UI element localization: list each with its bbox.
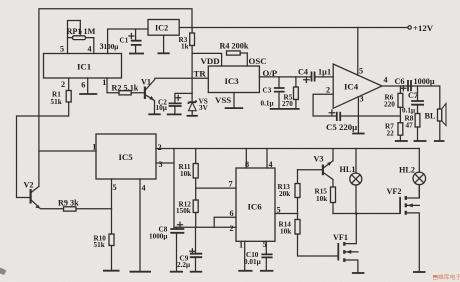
wire IC6 pin 6 jog [214,217,236,227]
timer IC3 [208,66,259,93]
wire IC6 pin 5 to divider [275,213,298,215]
resistor R15 10k [331,187,336,203]
svg-text:2: 2 [158,143,162,152]
wire mid supply rail from IC5 pin 2 [156,148,419,150]
svg-text:3: 3 [360,95,364,104]
node junction at HL1/VF1 drain [355,212,358,215]
ground for IC1 pin 6 [87,78,89,94]
wire junction to IC6 pin 7 [196,187,236,189]
timer IC6 [236,168,275,241]
svg-text:51k: 51k [94,241,105,249]
resistor R4 200k [240,53,247,66]
pin 5 of IC1 [68,21,81,54]
svg-text:C3: C3 [263,87,272,95]
svg-text:V1: V1 [141,78,151,87]
resistor R3 1k [191,28,193,103]
resistor R13 20k [297,170,299,214]
svg-text:10k: 10k [280,228,291,236]
svg-text:C5 220μ: C5 220μ [326,122,357,132]
svg-text:2: 2 [230,224,234,233]
capacitor C1 100u [135,29,137,53]
svg-text:V2: V2 [24,181,34,190]
svg-text:⬒维库电子市场网: ⬒维库电子市场网 [433,273,460,281]
svg-text:C4: C4 [298,68,308,77]
svg-text:3V: 3V [199,104,209,112]
capacitor C6 1000u [408,80,411,91]
resistor R10 51k [111,179,113,271]
resistor R1 51k [17,78,69,198]
MOSFET VF2 [399,197,401,214]
svg-text:1: 1 [239,241,243,250]
op-amp IC4 [333,64,382,108]
svg-text:IC2: IC2 [155,24,168,33]
pin 4 of IC6 [266,149,268,169]
svg-text:8: 8 [245,160,249,169]
svg-text:V3: V3 [314,155,324,164]
zener diode VS 3V [189,100,197,104]
wire pin 2 feedback [313,94,336,116]
svg-text:150k: 150k [176,207,191,215]
svg-text:VF1: VF1 [333,233,348,242]
capacitor C7 0.1u [417,86,419,114]
svg-text:HL2: HL2 [399,166,415,175]
resistor R9 3k [64,207,77,211]
svg-text:5: 5 [277,206,281,215]
wire IC4 output [382,86,440,109]
svg-text:6: 6 [230,209,234,218]
svg-text:IC1: IC1 [77,62,91,72]
wire trigger line to IC6 pin 2 [174,226,236,228]
svg-text:TR: TR [194,69,207,79]
ground for C1 [129,53,144,55]
resistor R7 22 [399,116,401,141]
capacitor C4 1u [312,72,315,82]
svg-text:4: 4 [88,45,92,54]
ground for VF1 source [352,272,365,274]
svg-text:R2 5.1k: R2 5.1k [112,84,139,93]
svg-text:1: 1 [327,68,331,77]
svg-text:1000μ: 1000μ [414,77,435,86]
ground for IC2 [163,35,165,53]
transistor V2 [30,189,32,204]
svg-text:C7: C7 [408,91,418,100]
wire R15 to VF2 gate [333,213,400,215]
capacitor C3 0.1u [278,77,280,109]
wire IC3 output [259,76,311,78]
timer IC5 [96,134,156,179]
svg-text:BL: BL [425,112,436,121]
svg-text:4: 4 [384,76,388,85]
svg-text:0.1μ: 0.1μ [261,100,274,108]
svg-text:10k: 10k [180,170,191,178]
ground for V1 emitter [148,113,160,115]
svg-text:VSS: VSS [215,95,231,105]
svg-text:220: 220 [384,101,395,109]
resistor R14 10k [298,214,339,257]
svg-text:C1: C1 [120,37,129,45]
capacitor C2 10u [175,93,192,114]
svg-text:5: 5 [263,240,267,249]
potentiometer RP1 1M [73,36,86,40]
svg-text:6: 6 [81,81,85,90]
resistor R8 47 [415,114,420,128]
svg-text:IC3: IC3 [225,76,240,86]
svg-text:1k: 1k [181,43,189,51]
svg-text:0.1μ: 0.1μ [402,107,415,115]
svg-text:4: 4 [142,184,146,193]
svg-text:VF2: VF2 [387,187,402,196]
transistor V1 [144,87,146,100]
ground for IC6 pin 1 [244,241,246,270]
svg-text:5: 5 [359,67,363,76]
svg-text:51k: 51k [51,98,62,106]
capacitor C5 220u [337,112,340,121]
ground for R8 [414,140,427,142]
wire top feed from IC2 output down left side to V2 collector [39,9,192,187]
MOSFET VF1 [337,243,339,261]
capacitor C8 1000u [176,227,178,272]
svg-text:R9 3k: R9 3k [58,199,79,208]
svg-text:C6: C6 [395,77,405,86]
svg-text:IC6: IC6 [248,202,263,212]
resistor R6 220 [399,86,401,116]
wire IC5 pin 3 to divider [156,149,174,228]
ground for C8 [170,271,183,273]
svg-text:4: 4 [269,160,273,169]
svg-text:20k: 20k [279,190,290,198]
svg-text:100μ: 100μ [104,43,119,51]
svg-text:+12V: +12V [413,23,434,33]
transistor V3 [322,165,324,176]
svg-text:10k: 10k [316,195,327,203]
svg-text:2.2μ: 2.2μ [177,261,190,269]
svg-text:HL1: HL1 [340,165,356,174]
ground for C9 [190,271,202,273]
svg-text:IC4: IC4 [344,82,359,92]
ground for IC3 VSS [233,93,235,108]
pin 4 of IC1 [93,38,95,54]
svg-text:RP1 1M: RP1 1M [67,27,96,36]
wire VDD link [192,53,222,66]
IC U1 chip IC1 [44,54,122,79]
wire IC1 pin3 to IC2 input [108,29,148,54]
ground for C10 [260,270,273,272]
svg-text:10μ: 10μ [156,104,167,112]
svg-text:270: 270 [282,100,293,108]
svg-text:IC5: IC5 [119,152,134,162]
resistor R2 5.1k [107,78,144,93]
resistor R11 10k [195,149,197,189]
svg-text:2: 2 [326,86,330,95]
ground for C3 and R5 [270,108,300,110]
svg-text:0.01μ: 0.01μ [244,258,261,266]
regulator IC2 [148,20,179,36]
svg-text:VDD: VDD [201,56,220,66]
svg-text:1μ: 1μ [318,68,327,77]
resistor R5 270 [295,77,297,109]
node +12V terminal [408,26,411,29]
ground for VF2 source [413,271,426,273]
svg-text:7: 7 [229,180,233,189]
svg-text:1: 1 [102,78,106,87]
svg-text:2: 2 [61,80,65,89]
pin 3 of IC4 to ground [357,97,359,134]
capacitor C10 0.01u on IC6 pin 5 [265,241,267,270]
ground for VS [187,115,198,117]
ground for R7 [395,140,408,142]
svg-text:3: 3 [159,160,163,169]
svg-text:1000μ: 1000μ [149,233,167,241]
svg-text:5: 5 [60,45,64,54]
speaker BL [438,109,442,121]
svg-text:R4 200k: R4 200k [220,42,249,51]
pin 8 of IC6 [245,149,247,169]
wire to IC5 pin 1 [39,150,96,152]
svg-text:22: 22 [387,130,395,138]
ground for IC5 pin 4 [139,179,141,272]
ground for R10 [103,270,120,272]
scan mark bottom left [0,268,7,276]
lamp HL2 [418,149,420,198]
lamp HL1 [355,149,357,214]
svg-text:OSC: OSC [249,56,267,66]
wire +12V supply rail [179,27,408,29]
svg-text:1: 1 [92,143,96,152]
ground for BL [434,140,445,142]
pin 5 of IC4 to +12V rail [357,28,359,76]
resistor R12 150k [195,188,197,227]
svg-text:47: 47 [406,122,414,130]
svg-text:5: 5 [113,183,117,192]
capacitor C9 2.2u [195,227,197,272]
ground for C2 [167,113,182,115]
